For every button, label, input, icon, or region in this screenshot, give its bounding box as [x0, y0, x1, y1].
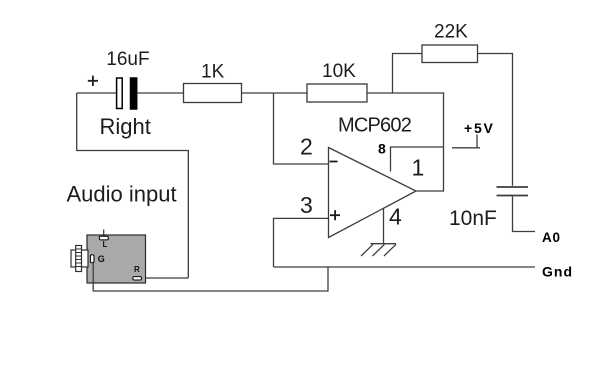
svg-text:R: R — [134, 265, 140, 274]
capacitor C2 10nF bottom plate — [497, 195, 529, 197]
op-amp U1 triangle — [329, 148, 417, 238]
wire C2 to A0 — [513, 197, 536, 232]
capacitor C2 10nF top plate — [497, 186, 529, 188]
resistor R3 22K — [422, 45, 478, 63]
jack plug threaded strip — [76, 246, 82, 272]
svg-text:16uF: 16uF — [106, 49, 149, 70]
wire left loop from input down and right — [77, 93, 189, 278]
jack G pad — [90, 255, 94, 263]
svg-text:4: 4 — [389, 203, 402, 229]
svg-text:10K: 10K — [322, 61, 356, 82]
wire jack ground down right and up to rail — [93, 263, 328, 291]
wire jack R pad to riser — [142, 277, 189, 279]
svg-text:Right: Right — [100, 114, 151, 139]
resistor R1 1K — [184, 84, 242, 103]
capacitor polarity plus sign — [88, 76, 98, 86]
svg-text:22K: 22K — [434, 22, 468, 43]
capacitor C1 16uF right plate — [130, 78, 137, 110]
jack plug barrel body — [71, 250, 88, 267]
jack R pad — [133, 277, 142, 280]
svg-text:2: 2 — [300, 134, 313, 160]
wire capacitor to R1 — [137, 92, 183, 94]
svg-text:L: L — [103, 240, 108, 249]
op-amp minus symbol — [330, 161, 338, 163]
resistor R2 10K — [307, 84, 367, 102]
jack L lead wire — [103, 230, 105, 237]
svg-text:Gnd: Gnd — [542, 264, 573, 280]
wire tap up to R3 left — [393, 54, 423, 94]
svg-text:3: 3 — [300, 192, 313, 218]
wire pin 2 from R1/R2 node — [274, 93, 329, 164]
wire pin 4 to ground — [383, 209, 385, 244]
svg-text:MCP602: MCP602 — [338, 114, 412, 136]
svg-text:Audio input: Audio input — [67, 182, 177, 207]
jack L pad — [99, 236, 108, 240]
wire R3 right down to capacitor C2 — [478, 54, 513, 186]
wire +5V stub — [452, 147, 480, 149]
wire R2 to feedback corner — [367, 92, 444, 94]
svg-text:+5V: +5V — [464, 120, 495, 136]
svg-text:1K: 1K — [201, 62, 225, 83]
svg-text:10nF: 10nF — [449, 207, 497, 230]
wire input to capacitor — [77, 92, 117, 94]
ground symbol — [361, 244, 396, 256]
wire +5V vertical tick — [476, 135, 478, 148]
op-amp plus symbol — [330, 210, 340, 220]
svg-text:1: 1 — [412, 155, 425, 181]
capacitor C1 16uF left plate — [117, 78, 123, 109]
svg-text:8: 8 — [378, 140, 386, 156]
svg-text:G: G — [98, 254, 105, 264]
wire R1 to R2 with node to pin 2 — [242, 92, 308, 94]
ground rail wire — [274, 266, 536, 268]
wire output and feedback vertical — [416, 93, 444, 191]
wire pin 3 down to ground rail — [274, 218, 329, 267]
audio jack body — [87, 235, 146, 283]
svg-text:A0: A0 — [542, 230, 561, 245]
pin 8 bracket wire — [391, 147, 444, 172]
